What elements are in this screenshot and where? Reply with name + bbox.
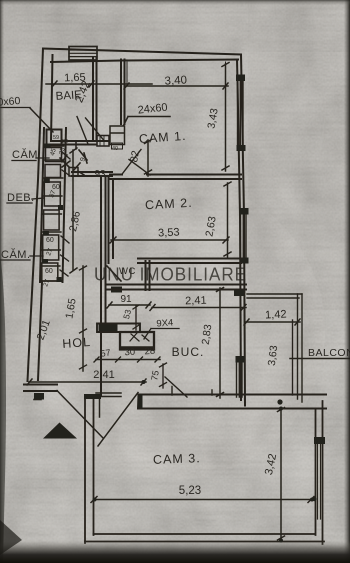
- svg-text:93: 93: [94, 169, 106, 180]
- photo dark edge bottom: [0, 541, 350, 563]
- closet door ticks: [60, 152, 70, 276]
- CAM2 door swing: [129, 160, 150, 176]
- label DEB leader: [7, 198, 44, 203]
- label CAM leader (bottom): [1, 256, 43, 260]
- wall: CAM1/CAM2 divider: [110, 175, 241, 180]
- svg-text:34: 34: [62, 139, 68, 145]
- svg-text:82: 82: [128, 150, 142, 164]
- svg-text:28: 28: [144, 346, 155, 358]
- window CAM2 (right wall): [241, 214, 247, 258]
- svg-text:CAM 3.: CAM 3.: [153, 451, 201, 467]
- wall: right exterior inner line: [237, 60, 241, 400]
- dimension 75 door BUC: [162, 364, 164, 388]
- svg-text:91: 91: [120, 294, 132, 305]
- dimension 3.53 (CAM2): [111, 239, 228, 241]
- photo dark edge left: [0, 0, 4, 563]
- wall: WC bottom (double): [106, 285, 246, 290]
- svg-text:HOL: HOL: [62, 335, 92, 351]
- svg-text:59: 59: [53, 135, 59, 141]
- uneven lighting patches: [0, 0, 350, 52]
- window CAM1 (right wall): [238, 81, 244, 146]
- bathroom shaft 60x60: [47, 130, 62, 146]
- CAM1 door swing: [123, 150, 142, 174]
- dimension line 3.40 (CAM1): [126, 85, 228, 87]
- dimension 91 (WC): [109, 304, 150, 306]
- wall: HOL/WC divider vertical (double): [101, 176, 106, 396]
- wall: right exterior outer line: [241, 55, 245, 406]
- wall: left exterior outer line: [28, 49, 44, 382]
- svg-text:30: 30: [124, 347, 135, 359]
- wall: CAM1 left (double): [121, 60, 125, 125]
- wall: CAM3 bottom (double): [85, 534, 324, 542]
- dimension 1.42 (balcony): [246, 321, 300, 323]
- svg-text:CĂM.: CĂM.: [1, 248, 31, 261]
- svg-text:2,41: 2,41: [93, 369, 114, 381]
- wall: top exterior inner line: [51, 60, 238, 63]
- svg-text:DEB.: DEB.: [7, 192, 35, 204]
- wall: bathroom bottom: [51, 141, 109, 145]
- wall: HOL bottom left segment: [24, 385, 57, 392]
- label CAM leader (top): [12, 158, 49, 161]
- dimension 5.23 (CAM3): [94, 499, 313, 501]
- closet strip right line: [63, 128, 67, 282]
- photo dark edge right: [344, 0, 350, 563]
- svg-text:57: 57: [100, 347, 111, 358]
- svg-text:3,53: 3,53: [158, 226, 180, 239]
- svg-text:3,63: 3,63: [266, 345, 280, 367]
- svg-text:60: 60: [52, 184, 60, 191]
- vent shaft 24x60: [110, 126, 125, 145]
- wall: bathroom inner left line: [51, 55, 53, 141]
- balcony attachment blob: [234, 290, 244, 296]
- svg-text:UNU IMOBILIARE: UNU IMOBILIARE: [94, 265, 247, 285]
- bathroom door swing: [77, 117, 88, 145]
- svg-text:40: 40: [112, 146, 118, 152]
- balcony right: top rail: [247, 294, 302, 298]
- dimension 3.42 vertical (CAM3): [280, 408, 282, 541]
- svg-text:BUC.: BUC.: [172, 345, 205, 359]
- dimension line 1.65 (BAIE width): [46, 83, 152, 85]
- wall: CAM3 left (double): [85, 396, 94, 543]
- entry door swing B (CAM3 door): [98, 393, 138, 447]
- svg-text:60: 60: [45, 268, 53, 275]
- svg-text:9X4: 9X4: [156, 317, 174, 329]
- entry door swing A: [57, 391, 103, 439]
- svg-text:75: 75: [149, 370, 161, 382]
- wall: HOL inner left line: [38, 282, 42, 380]
- svg-text:BALCON: BALCON: [308, 347, 350, 359]
- chimney vent box on top wall (hatched): [69, 47, 97, 61]
- label 60x60 leader: [30, 108, 53, 132]
- dimension 2.63 vertical (CAM2): [227, 183, 229, 257]
- svg-text:CAM 2.: CAM 2.: [145, 196, 193, 212]
- svg-text:5,23: 5,23: [179, 485, 201, 497]
- wall: top exterior outer line: [43, 49, 241, 55]
- dimension 1.65 vertical (HOL): [82, 266, 84, 371]
- window BUC (right wall): [237, 362, 243, 397]
- svg-text:3,40: 3,40: [164, 74, 187, 87]
- dimension 53 vertical: [135, 306, 137, 330]
- wall: CAM2 left (double): [109, 176, 114, 263]
- corridor small door marks: [73, 150, 87, 171]
- WC door threshold: [111, 287, 122, 293]
- dimension 2.41 (BUC): [152, 307, 246, 309]
- dimension 2.86 vertical line: [72, 150, 74, 270]
- WC pedestal in bathroom: [97, 136, 109, 147]
- wall: CAM2 bottom (double): [138, 259, 241, 264]
- label 24x60 underline and leader: [124, 117, 171, 126]
- BUC door swing: [165, 377, 187, 397]
- balcony right wall (double): [298, 294, 303, 402]
- dimension 57/30/28 line: [96, 359, 160, 361]
- closet inner boxes: [42, 148, 62, 282]
- wall: CAM3 right (double): [316, 401, 323, 544]
- wall: lintel above CAM3 door: [96, 393, 121, 397]
- dimension line 3.43 vertical (CAM1): [225, 64, 227, 171]
- wall: WC right (double): [146, 261, 150, 290]
- wall: bathroom right (double): [93, 58, 97, 141]
- kitchen counter bar: [97, 324, 140, 333]
- photo dark edge top: [0, 0, 350, 5]
- svg-text:CĂM: CĂM: [12, 148, 38, 161]
- BALCON underline: [290, 358, 350, 360]
- wall: corridor bottom (93): [72, 172, 112, 176]
- closet threshold blobs: [42, 144, 63, 283]
- BUC door jamb tick: [172, 387, 212, 396]
- closet strip dividers: [40, 146, 64, 281]
- north triangle: [43, 423, 77, 439]
- svg-text:2,41: 2,41: [185, 295, 207, 308]
- dimension 2.83 vertical (BUC): [219, 288, 221, 398]
- label 9x4 leader: [144, 329, 179, 340]
- svg-text:60: 60: [46, 237, 54, 244]
- kitchen shaft box: [120, 332, 154, 350]
- dimension 2.41 (HOL): [29, 381, 146, 383]
- svg-text:1,42: 1,42: [265, 308, 287, 321]
- wall: apartment bottom / CAM3 top (rectangle outline): [138, 395, 326, 409]
- dimension 82 door CAM1: [147, 140, 149, 176]
- window CAM3 right: [318, 442, 321, 519]
- closet strip left line: [40, 128, 44, 282]
